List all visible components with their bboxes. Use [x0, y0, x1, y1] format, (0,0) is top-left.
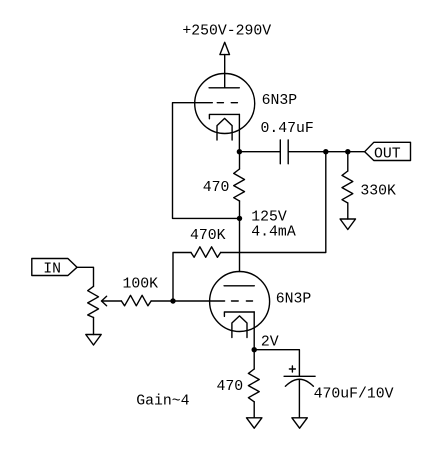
wire 100K to grid	[151, 300, 225, 302]
V2 cathode	[224, 312, 254, 316]
potentiometer VR1 element	[88, 286, 99, 334]
ground (below 330K)	[340, 219, 355, 230]
resistor R3 330K output load	[342, 152, 353, 219]
ground (below pot)	[86, 335, 101, 346]
wire output rail right	[288, 151, 365, 153]
svg-text:6N3P: 6N3P	[262, 93, 298, 109]
wire V1 grid to left rail	[173, 103, 240, 219]
wire cathode to bypass cap	[254, 350, 299, 377]
ground (below R5)	[247, 418, 262, 428]
tube V1 (upper 6N3P) envelope	[195, 74, 255, 134]
V1 heater	[217, 118, 232, 140]
V2 plate	[224, 285, 254, 287]
wire V1 cathode lead	[238, 114, 240, 151]
resistor R5 470 (lower cathode)	[248, 350, 259, 418]
V1 grid (dashed)	[212, 102, 237, 104]
V1 plate	[209, 87, 239, 89]
svg-text:100K: 100K	[123, 277, 159, 293]
V2 heater	[232, 316, 247, 338]
svg-text:6N3P: 6N3P	[276, 292, 312, 308]
node V1 cathode junction	[237, 149, 242, 154]
node 330K top	[345, 149, 350, 154]
tube V2 (lower 6N3P) envelope	[210, 272, 270, 332]
svg-text:+250V-290V: +250V-290V	[182, 24, 271, 40]
svg-text:330K: 330K	[360, 183, 396, 199]
wire feedback vertical	[221, 152, 326, 253]
wire V2 cathode lead	[253, 312, 255, 350]
VR1 wiper arrow	[102, 296, 122, 306]
OUT flag	[365, 142, 411, 160]
V2 grid (dashed)	[232, 300, 253, 302]
V1 cathode	[209, 114, 239, 118]
node grid junction	[170, 298, 175, 303]
node feedback tap	[323, 149, 328, 154]
svg-text:Gain~4: Gain~4	[136, 394, 189, 410]
svg-text:0.47uF: 0.47uF	[261, 121, 314, 137]
node 125V / lower plate junction	[237, 216, 242, 221]
resistor R1 470 (upper cathode)	[234, 152, 245, 219]
resistor R2 470K feedback	[191, 247, 221, 257]
svg-text:2V: 2V	[261, 335, 279, 351]
capacitor C1 0.47uF	[280, 140, 288, 164]
IN flag	[32, 259, 77, 276]
svg-text:470: 470	[217, 379, 244, 395]
resistor R4 100K grid stopper	[121, 295, 151, 306]
ground (below C2)	[292, 418, 307, 428]
capacitor C2 470uF/10V (polarized)	[284, 376, 315, 418]
svg-text:125V: 125V	[251, 210, 287, 226]
svg-text:470: 470	[203, 180, 230, 196]
svg-text:4.4mA: 4.4mA	[251, 225, 296, 241]
svg-text:OUT: OUT	[374, 147, 401, 163]
wire output rail left	[239, 151, 280, 153]
wire IN to pot	[77, 267, 94, 286]
svg-text:470K: 470K	[190, 228, 226, 244]
C2 polarity plus	[289, 366, 295, 372]
wire 470K to grid node	[173, 253, 191, 302]
node cathode junction 2V	[252, 347, 257, 352]
power supply arrow	[220, 42, 230, 88]
svg-text:470uF/10V: 470uF/10V	[314, 387, 394, 403]
wire lower plate lead	[239, 218, 241, 271]
svg-text:IN: IN	[43, 261, 61, 277]
